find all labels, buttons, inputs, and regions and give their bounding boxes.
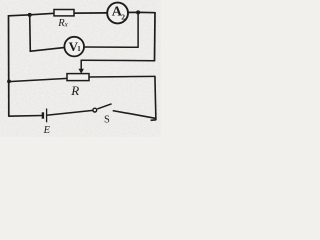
wire: wiper vertical drop to arrow	[80, 60, 82, 71]
wire: vertical from V1 wire up to junction dot after ammeter	[137, 12, 139, 48]
wire: wiper horizontal line	[81, 59, 155, 61]
wire: rheostat R left lead to left rail	[9, 78, 68, 81]
svg-text:E: E	[43, 125, 51, 136]
junction dot: top node joining V1 branch	[28, 13, 32, 17]
wire: battery to switch	[47, 110, 94, 115]
svg-text:S: S	[104, 115, 110, 126]
junction dot: left rail joins R lead	[7, 80, 11, 84]
wire: bottom-right corner foot	[151, 119, 156, 122]
voltmeter V1	[64, 37, 84, 57]
wire: right lower vertical down to bottom-right corner	[155, 76, 156, 121]
wiper arrow onto rheostat R	[79, 69, 84, 74]
wire: corner to voltmeter V1 left terminal	[30, 47, 66, 51]
svg-text:R: R	[70, 83, 79, 98]
battery E	[42, 109, 47, 123]
wire: right upper vertical (top-right corner down to wiper line)	[154, 12, 157, 61]
wire: V1 branch vertical drop from top junction	[29, 14, 32, 51]
wire: rheostat R right lead to right lower vertical	[89, 75, 156, 78]
svg-text:1: 1	[77, 45, 81, 53]
wire: voltmeter V1 right terminal to right drop	[84, 46, 138, 48]
rheostat R (box)	[67, 74, 89, 81]
svg-text:2: 2	[121, 12, 125, 21]
resistor Rx (box)	[54, 10, 74, 16]
wire: top horizontal (battery+ rail to top-right corner)	[9, 12, 156, 16]
wire: switch to bottom-right corner	[113, 111, 156, 119]
ammeter A2	[107, 3, 128, 24]
wire: bottom-left corner to battery	[8, 115, 42, 118]
junction dot: node after ammeter A2	[136, 10, 140, 14]
wire: left vertical rail	[8, 15, 10, 116]
switch S	[93, 104, 112, 112]
